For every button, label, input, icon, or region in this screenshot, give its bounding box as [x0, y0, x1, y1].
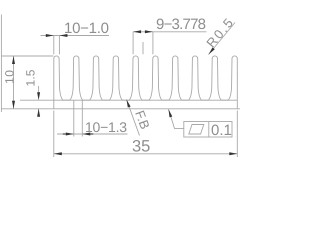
svg-text:R0.5: R0.5: [203, 16, 236, 51]
svg-text:F.B: F.B: [132, 108, 153, 131]
svg-text:10−1.0: 10−1.0: [64, 20, 109, 37]
leader F.B: [127, 100, 140, 136]
groove root extension line: [20, 99, 54, 101]
svg-text:10−1.3: 10−1.3: [85, 119, 127, 135]
svg-text:0.1: 0.1: [211, 122, 232, 139]
base bottom line extension: [1, 108, 240, 110]
flatness leader: [169, 109, 185, 128]
base top line: [54, 99, 238, 101]
fin top extension line: [1, 55, 53, 57]
svg-text:1.5: 1.5: [24, 69, 38, 86]
feature control frame 0.1: [184, 122, 232, 138]
svg-text:10: 10: [3, 70, 17, 84]
dimension 35 (overall width): [54, 111, 238, 158]
dimension 1.5 (base thickness): [38, 86, 40, 116]
svg-text:35: 35: [132, 138, 150, 156]
dimension 10 (height): [13, 56, 15, 109]
svg-text:9−3.778: 9−3.778: [156, 16, 206, 33]
dimension 10-1.0: [41, 36, 110, 55]
dimension 9-3.778: [133, 32, 206, 55]
parallelogram symbol: [189, 125, 204, 135]
dimension 10-1.3: [57, 101, 128, 137]
heatsink profile outline: [54, 56, 238, 109]
frame border line: [0, 15, 2, 113]
leader R0.5: [209, 23, 236, 55]
